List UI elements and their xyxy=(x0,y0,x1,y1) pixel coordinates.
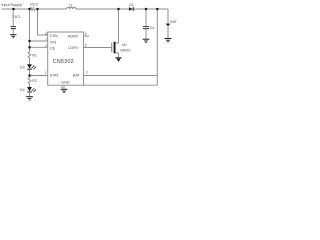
svg-text:HDRV: HDRV xyxy=(68,34,79,38)
svg-text:4: 4 xyxy=(61,85,63,89)
svg-text:BAT: BAT xyxy=(73,74,81,78)
svg-text:2: 2 xyxy=(45,44,47,48)
svg-text:NMOS: NMOS xyxy=(120,48,131,52)
svg-text:Ca: Ca xyxy=(150,26,155,30)
svg-text:CSN: CSN xyxy=(50,34,58,38)
svg-text:8: 8 xyxy=(45,32,47,36)
svg-text:D4: D4 xyxy=(20,88,25,92)
svg-text:D3: D3 xyxy=(20,65,25,69)
svg-text:7.5C1: 7.5C1 xyxy=(12,15,21,19)
svg-text:RCS: RCS xyxy=(30,3,38,7)
svg-text:R1: R1 xyxy=(32,53,37,57)
svg-text:Input Supply: Input Supply xyxy=(1,2,22,7)
svg-text:3: 3 xyxy=(86,71,88,75)
svg-text:R2: R2 xyxy=(32,79,37,83)
svg-text:STAT: STAT xyxy=(50,74,60,78)
svg-text:1: 1 xyxy=(45,71,47,75)
svg-text:LDRV: LDRV xyxy=(68,46,79,50)
svg-text:D1: D1 xyxy=(129,3,134,7)
svg-text:7: 7 xyxy=(45,38,47,42)
svg-text:VIN: VIN xyxy=(50,40,57,44)
svg-text:6: 6 xyxy=(85,32,87,36)
svg-text:5: 5 xyxy=(85,43,87,47)
svg-text:CE: CE xyxy=(50,46,56,50)
svg-text:M1: M1 xyxy=(122,43,127,47)
svg-text:L1: L1 xyxy=(69,3,73,7)
svg-text:BAT: BAT xyxy=(170,20,178,24)
svg-text:CN5302: CN5302 xyxy=(53,59,74,65)
svg-text:GND: GND xyxy=(61,81,70,85)
